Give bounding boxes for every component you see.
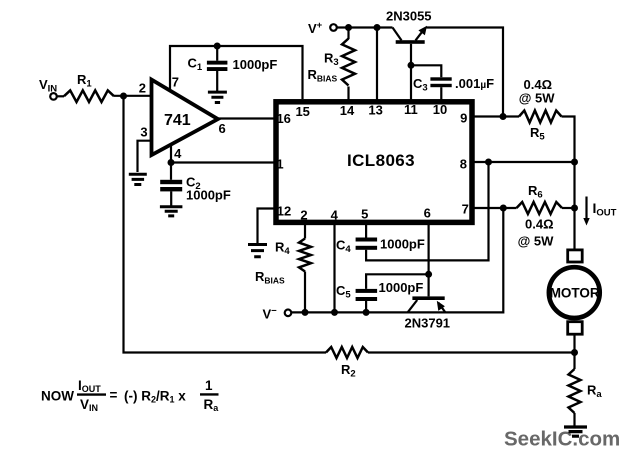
- svg-text:1000pF: 1000pF: [380, 237, 425, 252]
- svg-text:2N3055: 2N3055: [386, 9, 432, 24]
- capacitor C2: [160, 180, 182, 184]
- wire IC pin7 row: [473, 207, 517, 209]
- wire R1 to op-amp pin2: [114, 95, 152, 97]
- wire C1 to ground: [216, 71, 218, 91]
- node R6/motor junction: [571, 205, 578, 212]
- svg-text:10: 10: [433, 102, 447, 117]
- node C1 rail junction: [214, 43, 221, 50]
- node pin4/pin1/C2 junction: [168, 159, 175, 166]
- svg-text:1000pF: 1000pF: [379, 280, 424, 295]
- svg-text:@ 5W: @ 5W: [518, 234, 555, 249]
- wire pin7 up and top rail to pin15: [170, 46, 303, 99]
- formula fraction bar 2: [200, 393, 219, 395]
- wire junction to C3: [411, 65, 441, 77]
- svg-text:1: 1: [205, 378, 213, 393]
- svg-text:11: 11: [404, 102, 418, 117]
- node pin7/Q2 junction: [500, 205, 507, 212]
- node pin9 rail junction: [500, 113, 507, 120]
- svg-text:@ 5W: @ 5W: [519, 91, 556, 106]
- wire R3 bottom lead to IC pin14: [347, 87, 349, 101]
- svg-text:13: 13: [368, 103, 382, 118]
- svg-text:1000pF: 1000pF: [233, 57, 278, 72]
- wire pin13 vertical: [376, 28, 378, 101]
- wire IC pin8 row: [473, 161, 575, 163]
- svg-text:8: 8: [460, 157, 467, 172]
- wire C1 stem top: [216, 46, 218, 61]
- arrow IOUT: [585, 197, 587, 220]
- svg-text:(-) R2/R1 x: (-) R2/R1 x: [124, 389, 186, 405]
- wire IC pin9 row: [473, 115, 519, 117]
- node pin6/C5 junction: [425, 271, 432, 278]
- svg-text:9: 9: [460, 111, 467, 126]
- wire pin8 down to C4 bottom: [366, 162, 488, 260]
- ground below C2: [160, 207, 183, 216]
- svg-text:=: =: [110, 388, 118, 403]
- wire V+ rail right segment down to pin9 row: [427, 28, 504, 117]
- svg-text:6: 6: [218, 121, 225, 136]
- op-amp U1 741 triangle: [152, 80, 218, 156]
- svg-text:741: 741: [164, 112, 191, 129]
- svg-text:2: 2: [139, 81, 146, 96]
- terminal VIN: [50, 93, 57, 100]
- svg-text:7: 7: [172, 75, 179, 90]
- node pin13 rail junction: [374, 24, 381, 31]
- svg-text:6: 6: [424, 206, 431, 221]
- svg-text:7: 7: [462, 202, 469, 217]
- wire R3 top lead: [347, 28, 349, 40]
- resistor R3: [342, 39, 355, 86]
- transistor Q2 left diagonal: [408, 300, 418, 312]
- wire R5 right corner down through pin8 row to motor: [562, 117, 575, 251]
- svg-text:15: 15: [295, 104, 309, 119]
- wire IC pin4 stub down to V- row: [333, 224, 335, 312]
- wire pin3 to ground: [138, 141, 152, 172]
- node R3 top junction: [345, 24, 352, 31]
- wire C3 bottom to IC pin10: [440, 87, 442, 100]
- wire pin4 down to node: [170, 145, 172, 180]
- svg-text:MOTOR: MOTOR: [550, 285, 600, 300]
- node pin8/R5 junction: [571, 159, 578, 166]
- transistor Q1 collector diagonal with arrow: [416, 29, 425, 41]
- ground below pin12: [248, 245, 267, 257]
- svg-text:12: 12: [277, 204, 291, 219]
- svg-text:.001µF: .001µF: [455, 76, 494, 91]
- wire node to IC pin1: [171, 161, 274, 163]
- node Q1 base / C3 junction: [408, 62, 415, 69]
- capacitor C1: [207, 61, 228, 65]
- node C5/V- junction: [363, 309, 370, 316]
- ground below C1: [208, 92, 227, 102]
- motor M1 body: [549, 267, 600, 318]
- wire Ra top lead: [573, 353, 575, 370]
- wire C5 top to pin6 vertical: [366, 274, 429, 289]
- resistor R5: [519, 111, 562, 123]
- wire motor bottom to R2 row: [573, 334, 575, 353]
- node motor/R2/Ra junction: [571, 349, 578, 356]
- ground at op-amp pin3: [129, 174, 147, 184]
- transistor Q2 right diagonal with arrow: [439, 303, 446, 313]
- transistor Q2 2N3791 base bar: [412, 296, 444, 300]
- capacitor C5: [356, 289, 378, 293]
- wire IC pin5 stub to C4: [365, 224, 367, 238]
- svg-text:0.4Ω: 0.4Ω: [525, 217, 554, 232]
- transistor Q1 2N3055 emitter diagonal: [393, 28, 402, 41]
- svg-text:5: 5: [361, 207, 368, 222]
- svg-text:4: 4: [331, 208, 339, 223]
- formula fraction bar 1: [77, 393, 106, 395]
- resistor R2: [326, 347, 368, 358]
- terminal V+: [330, 24, 337, 31]
- wire C2 to ground: [170, 191, 172, 205]
- wire R2 to motor junction: [368, 351, 575, 353]
- wire R4 bottom lead: [304, 272, 306, 313]
- svg-text:2: 2: [300, 208, 307, 223]
- wire IC pin2 stub: [304, 224, 306, 239]
- svg-text:4: 4: [174, 146, 182, 161]
- wire V- row: [291, 208, 503, 312]
- svg-text:14: 14: [340, 103, 355, 118]
- node pin8/C4 junction: [485, 159, 492, 166]
- node pin4-stub/V- junction: [331, 309, 338, 316]
- resistor Ra: [569, 369, 581, 413]
- capacitor C3: [430, 77, 451, 80]
- wire R6 right lead: [562, 207, 575, 209]
- wire Ra to ground: [573, 413, 575, 426]
- svg-text:16: 16: [276, 111, 290, 126]
- node R4/V- junction: [302, 309, 309, 316]
- resistor R4: [299, 239, 311, 272]
- wire op-amp output pin6 to IC pin16: [218, 117, 274, 119]
- resistor R6: [517, 202, 563, 214]
- wire Q1 base down to IC pin11: [410, 44, 412, 100]
- wire V+ rail left segment: [337, 26, 393, 28]
- svg-text:NOW: NOW: [41, 389, 74, 404]
- svg-text:2N3791: 2N3791: [405, 316, 451, 331]
- wire feedback left vertical + bottom row to R2: [124, 96, 327, 353]
- wire VIN to R1: [57, 95, 64, 97]
- svg-text:ICL8063: ICL8063: [347, 151, 415, 170]
- node input junction: [120, 93, 127, 100]
- svg-text:1: 1: [276, 157, 283, 172]
- ground below Ra: [564, 427, 587, 436]
- svg-text:1000pF: 1000pF: [186, 188, 231, 203]
- wire C5 bottom to V- row: [365, 301, 367, 312]
- motor bottom terminal: [568, 322, 583, 335]
- capacitor C4: [356, 238, 378, 242]
- wire IC pin6 stub down to Q2 base: [428, 224, 430, 296]
- transistor Q1 base bar: [396, 40, 425, 44]
- svg-text:SeekIC.com: SeekIC.com: [504, 428, 620, 451]
- terminal V-: [285, 310, 292, 317]
- svg-text:3: 3: [140, 125, 147, 140]
- wire pin12 stub to ground: [258, 209, 275, 244]
- motor top terminal: [568, 250, 583, 262]
- IC U2 ICL8063 body: [276, 102, 472, 223]
- resistor R1: [64, 90, 114, 102]
